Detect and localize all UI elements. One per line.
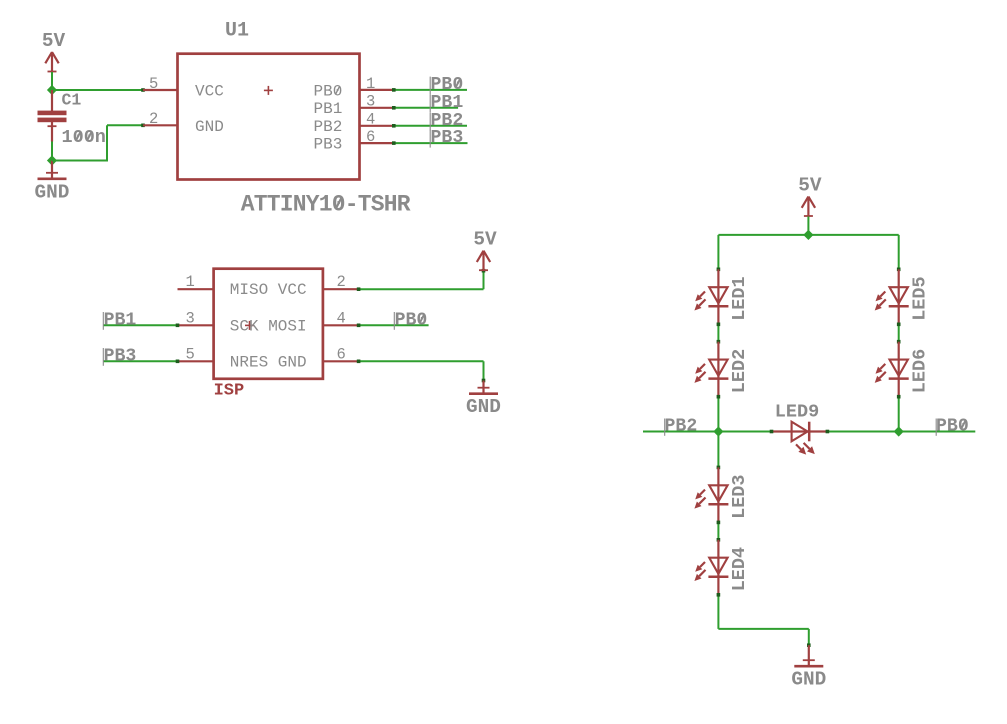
svg-text:2: 2 <box>149 110 158 128</box>
svg-text:LED1: LED1 <box>729 276 750 320</box>
wire LED1 to LED2 <box>717 323 721 344</box>
svg-text:PB1: PB1 <box>313 100 342 118</box>
op IC U1 ATTINY10 body <box>178 54 360 180</box>
svg-text:GND: GND <box>195 118 224 136</box>
supply +5V symbol P+1 <box>42 30 66 72</box>
diode LED9 <box>770 422 829 455</box>
wire net PB0 from ISP pin 4 <box>357 324 429 328</box>
wire net PB3 to ISP pin 5 <box>103 360 179 364</box>
wire VCC net to U1 pin 5 <box>52 88 145 92</box>
pin names MISO VCC <box>230 281 307 299</box>
svg-text:LED9: LED9 <box>775 402 819 423</box>
diode LED5 <box>875 269 931 324</box>
supply +5V symbol P+2 <box>473 229 497 271</box>
supply +5V symbol P+3 <box>798 175 822 217</box>
pin number 3 <box>366 93 375 111</box>
wire LED2 to PB2 node <box>717 395 721 432</box>
pin number 1 <box>366 75 375 93</box>
svg-text:PB0: PB0 <box>936 416 969 436</box>
label C1 <box>62 91 82 110</box>
ground GND symbol (C1) <box>35 173 70 204</box>
pin names NRES GND <box>230 353 307 371</box>
wire LED3 to LED4 <box>717 521 721 542</box>
pin number 3 <box>186 309 195 327</box>
pin names SCK MOSI <box>230 317 307 335</box>
ISP pin 1 stub <box>178 288 214 290</box>
svg-text:5V: 5V <box>798 175 822 197</box>
svg-text:100n: 100n <box>62 127 106 148</box>
wire net PB0 from U1 <box>392 88 467 92</box>
net label PB3 <box>430 128 463 148</box>
svg-text:PB1: PB1 <box>104 310 137 330</box>
ISP pin 3 stub <box>178 324 214 326</box>
pin number 2 <box>337 273 346 291</box>
diode LED6 <box>875 342 931 397</box>
wire net PB3 from U1 <box>392 141 468 145</box>
svg-text:GND: GND <box>35 181 70 203</box>
svg-text:ISP: ISP <box>214 382 245 401</box>
label U1 <box>225 20 249 43</box>
net label PB0 (LED) <box>936 416 969 436</box>
pin number 6 <box>337 345 346 363</box>
svg-text:5V: 5V <box>473 229 497 251</box>
U1 pin 1 stub (PB0) <box>360 89 394 91</box>
pin number 4 <box>337 309 346 327</box>
wire net PB1 from U1 <box>392 106 458 110</box>
wire ISP pin 6 to GND <box>357 360 486 394</box>
ground GND symbol (LED) <box>791 660 826 691</box>
svg-text:1: 1 <box>366 75 375 93</box>
svg-text:LED4: LED4 <box>729 547 750 591</box>
pin number 5 <box>149 75 158 93</box>
junction node PB0 <box>894 426 904 436</box>
svg-text:GND: GND <box>466 396 501 418</box>
svg-text:5: 5 <box>186 345 195 363</box>
net label PB2 <box>665 416 698 436</box>
svg-text:2: 2 <box>337 273 346 291</box>
wire net PB2/PB0 horizontal <box>643 431 975 433</box>
diode LED1 <box>694 269 750 324</box>
svg-text:LED6: LED6 <box>909 349 930 393</box>
svg-text:5: 5 <box>149 75 158 93</box>
svg-text:4: 4 <box>366 111 375 129</box>
net label PB2 <box>430 111 463 131</box>
U1 pin 5 VCC stub <box>143 89 178 91</box>
junction node VCC at C1 <box>47 85 57 95</box>
diode LED4 <box>694 540 750 595</box>
pin number 4 <box>366 111 375 129</box>
net label PB0 <box>430 75 463 95</box>
value 100n <box>62 127 106 148</box>
ground GND symbol (ISP) <box>466 388 501 419</box>
svg-text:ATTINY10-TSHR: ATTINY10-TSHR <box>241 192 411 218</box>
pin name VCC <box>195 82 224 100</box>
net label PB1 <box>430 93 463 113</box>
wire LED6 to PB0 node <box>897 395 901 432</box>
svg-text:PB3: PB3 <box>104 346 137 366</box>
label ISP <box>214 382 245 401</box>
ISP pin 4 stub <box>323 324 359 326</box>
svg-text:GND: GND <box>791 669 826 691</box>
wire net PB2 from U1 <box>392 124 467 128</box>
label LED9 <box>775 402 819 423</box>
svg-text:PB3: PB3 <box>313 136 342 154</box>
pin number 5 <box>186 345 195 363</box>
wire LED5 to LED6 <box>897 323 901 344</box>
net label PB1 <box>103 310 136 330</box>
wire 5V to junction <box>51 72 53 90</box>
svg-text:NRES GND: NRES GND <box>230 353 307 371</box>
net label PB3 <box>103 346 136 366</box>
svg-text:6: 6 <box>366 128 375 146</box>
wire 5V to LED rail <box>807 217 809 235</box>
svg-text:U1: U1 <box>225 20 249 43</box>
junction node 5V rail <box>803 230 813 240</box>
ISP origin cross <box>245 321 254 330</box>
U1 pin 2 GND stub <box>143 124 178 126</box>
U1 pin 3 stub (PB1) <box>360 107 394 109</box>
svg-text:PB3: PB3 <box>431 128 464 148</box>
svg-text:C1: C1 <box>62 91 82 110</box>
pin number 2 <box>149 110 158 128</box>
wire GND net jog to U1 pin 2 <box>52 124 145 162</box>
diode LED3 <box>694 467 750 522</box>
wire top rail <box>717 235 901 271</box>
wire GND pin stub <box>51 161 53 179</box>
wire LED4 to GND <box>717 593 811 666</box>
svg-text:PB2: PB2 <box>313 118 342 136</box>
svg-text:LED2: LED2 <box>729 349 750 393</box>
ISP pin 2 stub <box>323 288 359 290</box>
pin name GND <box>195 118 224 136</box>
svg-text:5V: 5V <box>42 30 66 52</box>
svg-text:3: 3 <box>186 309 195 327</box>
svg-text:MISO VCC: MISO VCC <box>230 281 307 299</box>
svg-text:PB0: PB0 <box>313 82 342 100</box>
pin names PB0-PB3 inside U1 <box>313 82 342 153</box>
junction node PB2 <box>713 426 723 436</box>
svg-text:PB1: PB1 <box>431 93 464 113</box>
ISP pin 6 stub <box>323 360 359 362</box>
svg-text:LED5: LED5 <box>909 276 930 320</box>
wire net PB1 to ISP pin 3 <box>103 324 179 328</box>
wire ISP pin 2 to 5V <box>357 269 486 291</box>
U1 pin 6 stub (PB3) <box>360 142 394 144</box>
diode LED2 <box>694 342 750 397</box>
pin number 1 <box>186 273 195 291</box>
svg-text:SCK MOSI: SCK MOSI <box>230 317 307 335</box>
svg-text:VCC: VCC <box>195 82 224 100</box>
svg-text:LED3: LED3 <box>729 474 750 518</box>
ISP pin 5 stub <box>178 360 214 362</box>
svg-text:6: 6 <box>337 345 346 363</box>
value ATTINY10-TSHR <box>241 192 411 218</box>
U1 pin 4 stub (PB2) <box>360 125 394 127</box>
net label PB0 (ISP) <box>394 310 427 330</box>
svg-text:4: 4 <box>337 309 346 327</box>
wire C1 to GND junction <box>51 142 53 161</box>
connector ISP body <box>214 269 323 379</box>
pin number 6 <box>366 128 375 146</box>
wire PB2 node to LED3 <box>717 432 721 470</box>
capacitor C1 <box>38 90 67 142</box>
svg-text:1: 1 <box>186 273 195 291</box>
U1 origin cross <box>264 86 273 95</box>
svg-text:3: 3 <box>366 93 375 111</box>
svg-text:PB0: PB0 <box>395 310 428 330</box>
svg-text:PB2: PB2 <box>665 416 698 436</box>
junction node GND at C1 <box>47 155 57 165</box>
